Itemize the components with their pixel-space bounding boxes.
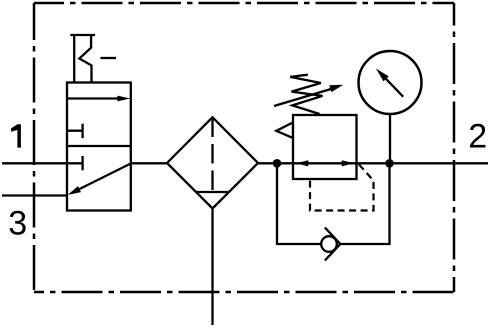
svg-text:2: 2 [468, 118, 487, 156]
svg-text:3: 3 [8, 205, 27, 243]
